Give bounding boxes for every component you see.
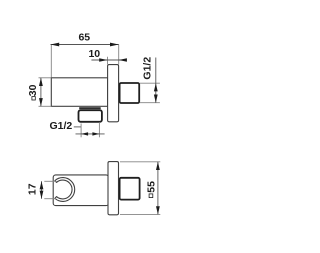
G1/2 bottom: arrow left bbox=[81, 132, 88, 135]
dimension 30 left: extension top bbox=[39, 77, 52, 79]
extension line 10 dim left bbox=[107, 57, 109, 65]
G1/2 bottom leader bbox=[74, 126, 81, 128]
thread collar under body bbox=[79, 107, 101, 109]
dimension 17: vertical line bbox=[41, 181, 43, 198]
dimension 17: arrow down bbox=[40, 191, 44, 199]
body rectangle (square 30 side view) bbox=[51, 78, 107, 107]
holder C-ring bbox=[55, 178, 75, 202]
dimension 10 arrow right bbox=[119, 58, 127, 62]
dimension 30 left: arrow down bbox=[39, 98, 43, 106]
extension line right (65/10 dim) bbox=[118, 45, 120, 65]
dimension 65 arrow left bbox=[51, 43, 60, 47]
dimension 30 left: extension bottom bbox=[39, 105, 52, 107]
G1/2 bottom: arrow right bbox=[92, 132, 99, 135]
hose nut under body bbox=[79, 110, 102, 122]
dimension 55: vertical line bbox=[157, 162, 159, 215]
svg-text:10: 10 bbox=[88, 48, 100, 60]
dimension 17: extension top bbox=[44, 180, 56, 182]
dimension 65 arrow right bbox=[110, 43, 119, 47]
extension line left (65 dim) bbox=[50, 45, 52, 78]
svg-text:G1/2: G1/2 bbox=[50, 120, 73, 132]
wall plate (55) bbox=[108, 162, 119, 215]
svg-text:55: 55 bbox=[145, 181, 157, 193]
G1/2 bottom: extension right bbox=[98, 122, 100, 137]
dimension 10 arrow left bbox=[99, 58, 107, 62]
dimension 30 left: arrow up bbox=[39, 78, 43, 86]
dimension 55: arrow up bbox=[156, 162, 160, 170]
svg-text:17: 17 bbox=[26, 183, 38, 195]
svg-text:65: 65 bbox=[78, 32, 90, 44]
dimension 17: extension bottom bbox=[44, 198, 56, 200]
dimension 55: arrow down bbox=[156, 206, 160, 214]
dimension G1/2 right: extension bottom bbox=[140, 102, 160, 104]
holder bracket bbox=[53, 175, 108, 206]
dimension G1/2 right: arrow up bbox=[154, 83, 158, 91]
dimension 10 line bbox=[91, 59, 125, 61]
dimension 55: extension top bbox=[120, 161, 160, 163]
dimension G1/2 right: extension top bbox=[140, 82, 160, 84]
G1/2 bottom: dimension line bbox=[76, 133, 105, 135]
G1/2 nipple (bottom view) bbox=[120, 178, 140, 200]
square symbol for 30 bbox=[32, 97, 35, 100]
svg-text:30: 30 bbox=[27, 84, 39, 96]
dimension 30 left: vertical line bbox=[40, 78, 42, 107]
dimension G1/2 right: arrow down bbox=[154, 95, 158, 103]
dimension G1/2 right: vertical line bbox=[155, 58, 157, 103]
G1/2 nipple (top view) bbox=[120, 83, 140, 103]
G1/2 bottom: extension left bbox=[80, 124, 82, 138]
dimension 17: arrow up bbox=[40, 181, 44, 189]
wall flange (10 thick) bbox=[108, 65, 119, 122]
dimension 65 line bbox=[51, 44, 119, 46]
square symbol for 55 bbox=[149, 194, 153, 198]
svg-text:G1/2: G1/2 bbox=[141, 57, 153, 80]
dimension 55: extension bottom bbox=[120, 213, 160, 215]
